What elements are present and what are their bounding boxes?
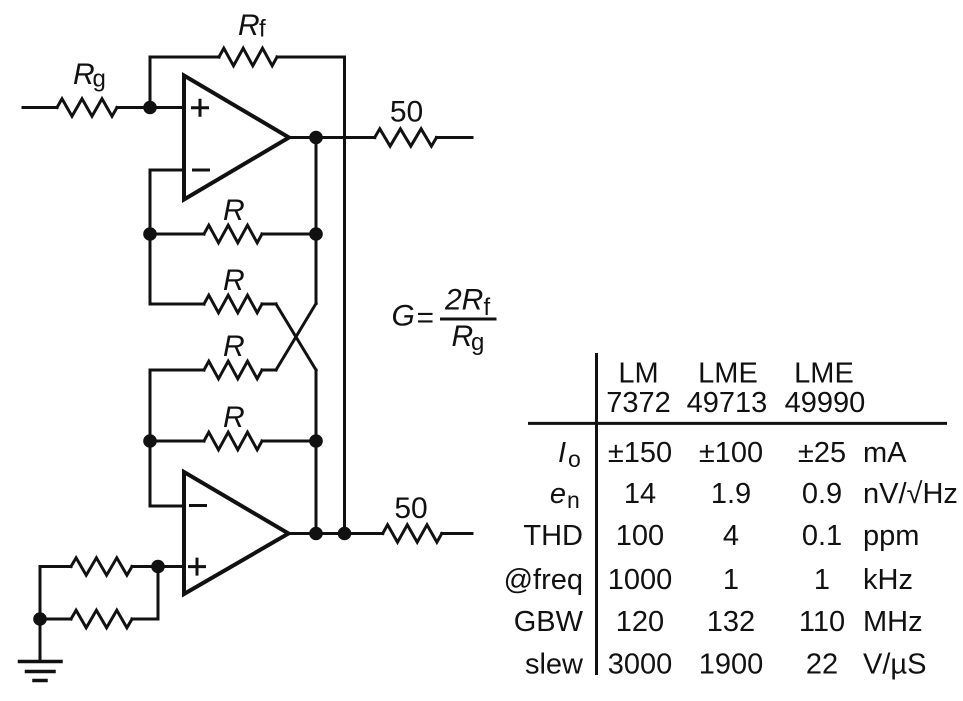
svg-text:49713: 49713: [687, 387, 768, 419]
svg-text:f: f: [259, 16, 266, 43]
wire left vertical to ground: [39, 567, 42, 662]
U1 plus input symbol: [193, 100, 208, 115]
wire U2 output: [289, 532, 383, 535]
svg-text:slew: slew: [525, 649, 584, 681]
svg-text:o: o: [568, 446, 581, 472]
svg-text:n: n: [567, 487, 580, 513]
svg-text:22: 22: [806, 649, 838, 681]
svg-text:100: 100: [616, 520, 664, 552]
wire Rf right segment: [277, 56, 345, 59]
resistor ground leg lower: [71, 610, 132, 628]
svg-text:MHz: MHz: [863, 606, 923, 638]
svg-text:nV/√Hz: nV/√Hz: [863, 478, 958, 510]
svg-text:2R: 2R: [444, 284, 483, 317]
svg-text:g: g: [471, 329, 484, 356]
wire lower resistor up to U2 plus node: [157, 567, 160, 620]
svg-text:1.9: 1.9: [711, 478, 751, 510]
svg-text:R: R: [223, 264, 245, 297]
svg-text:49990: 49990: [785, 387, 866, 419]
wire vertical crossover down to U2 output: [315, 370, 318, 534]
svg-text:1: 1: [723, 564, 739, 596]
svg-text:R: R: [223, 194, 245, 227]
svg-text:e: e: [550, 478, 566, 510]
resistor R row4: [204, 432, 262, 450]
resistor R row3: [204, 361, 262, 379]
svg-text:GBW: GBW: [514, 606, 584, 638]
svg-text:1900: 1900: [699, 649, 764, 681]
fraction bar: [440, 318, 497, 321]
wire vertical U1 output down to crossover: [315, 138, 318, 304]
svg-text:THD: THD: [523, 520, 583, 552]
wire node A up to Rf: [149, 57, 152, 108]
wire lower resistor left: [40, 618, 71, 621]
svg-text:50: 50: [394, 492, 427, 525]
wire row4 right: [262, 440, 316, 443]
wire right vertical Rf to U2 output: [343, 57, 346, 534]
wire row4 left: [150, 440, 204, 443]
wire U1 minus input: [150, 169, 184, 172]
resistor ground leg upper: [71, 558, 132, 575]
svg-text:LME: LME: [794, 358, 854, 390]
wire row1 left: [150, 233, 204, 236]
node A junction dot: [143, 101, 157, 115]
svg-text:@freq: @freq: [504, 564, 583, 596]
svg-text:50: 50: [390, 96, 423, 129]
wire upper resistor to U2 plus: [132, 565, 184, 568]
svg-text:f: f: [484, 294, 491, 321]
svg-text:LM: LM: [618, 358, 658, 390]
wire row2 right stub: [262, 303, 276, 306]
table vertical rule: [595, 353, 598, 675]
wire input left: [23, 106, 57, 109]
svg-text:R: R: [73, 58, 95, 91]
node Rf return junction dot: [338, 527, 352, 541]
wire row2 left: [150, 303, 204, 306]
wire Rf left segment: [150, 56, 219, 59]
svg-text:V/µS: V/µS: [863, 649, 926, 681]
svg-text:=: =: [417, 302, 435, 335]
svg-text:R: R: [452, 320, 474, 353]
svg-text:7372: 7372: [606, 387, 671, 419]
wire row1 right: [262, 233, 316, 236]
resistor Rf: [219, 48, 277, 66]
svg-text:110: 110: [799, 606, 845, 638]
node row1 right dot: [309, 227, 323, 241]
wire left vertical row3 to U2 minus: [149, 370, 152, 506]
wire 50 top output: [437, 136, 473, 139]
wire crossover diagonal row2 to lower vertical: [276, 304, 316, 370]
svg-text:4: 4: [723, 520, 739, 552]
wire crossover diagonal upper vertical to row3: [276, 304, 316, 371]
wire left vertical U1 minus to R2: [149, 170, 152, 304]
node ground net junction dot: [33, 612, 47, 626]
svg-text:kHz: kHz: [863, 564, 913, 596]
svg-text:1: 1: [814, 564, 830, 596]
svg-text:G: G: [392, 300, 415, 333]
svg-text:mA: mA: [863, 437, 907, 469]
svg-text:ppm: ppm: [863, 520, 919, 552]
wire lower resistor right: [132, 618, 158, 621]
wire row3 left: [150, 369, 204, 372]
svg-text:0.9: 0.9: [802, 478, 842, 510]
svg-text:LME: LME: [698, 358, 758, 390]
node U1 output junction dot: [309, 131, 323, 145]
svg-text:±100: ±100: [699, 437, 763, 469]
svg-text:R: R: [223, 330, 245, 363]
U2 plus input symbol: [190, 559, 205, 574]
node row4 left dot: [143, 434, 157, 448]
ground: [20, 662, 62, 681]
resistor 50 top: [375, 129, 437, 146]
svg-text:±150: ±150: [608, 437, 672, 469]
svg-text:120: 120: [616, 606, 664, 638]
table header rule: [528, 422, 947, 425]
svg-text:132: 132: [707, 606, 755, 638]
svg-text:14: 14: [624, 478, 656, 510]
svg-text:g: g: [93, 66, 106, 93]
wire U2 plus left segment: [40, 565, 71, 568]
svg-text:I: I: [558, 437, 566, 469]
node row4 right dot: [309, 434, 323, 448]
node U2 plus junction dot: [151, 560, 165, 574]
wire 50 bottom output: [442, 532, 472, 535]
resistor R row2: [204, 295, 262, 313]
resistor Rg: [57, 99, 117, 116]
resistor R row1: [204, 225, 262, 243]
svg-text:R: R: [238, 9, 260, 42]
resistor 50 bottom: [383, 525, 442, 542]
node row1 left dot: [143, 227, 157, 241]
wire U2 minus input: [150, 505, 184, 508]
wire row3 right stub: [262, 369, 276, 372]
svg-text:±25: ±25: [798, 437, 846, 469]
U1 minus input symbol: [194, 169, 209, 172]
svg-text:3000: 3000: [608, 649, 673, 681]
svg-text:1000: 1000: [608, 564, 673, 596]
U2 minus input symbol: [191, 504, 206, 507]
svg-text:R: R: [223, 401, 245, 434]
op-amp U1: [184, 76, 289, 200]
op-amp U2: [184, 472, 289, 594]
wire Rg to op-amp U1 + input: [117, 106, 184, 109]
svg-text:0.1: 0.1: [802, 520, 842, 552]
node U2 output junction dot: [309, 527, 323, 541]
wire U1 output: [289, 136, 375, 139]
